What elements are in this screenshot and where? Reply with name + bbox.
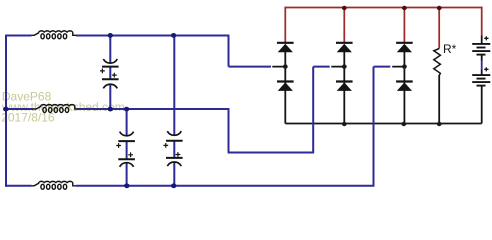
svg-text:R*: R* [443,42,457,56]
svg-text:2017/8/16: 2017/8/16 [1,110,55,124]
